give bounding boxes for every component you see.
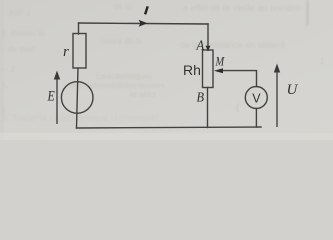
svg-text:e effet de la vieille au nombr: e effet de la vieille au nombre xyxy=(183,3,300,13)
svg-text:mietre de la: mietre de la xyxy=(100,37,142,46)
emf arrow for E xyxy=(54,71,60,125)
svg-text:E: E xyxy=(47,87,55,103)
wire right upper vertical xyxy=(207,24,209,50)
svg-text:M: M xyxy=(215,54,226,68)
voltmeter V xyxy=(245,87,267,109)
svg-text:U: U xyxy=(287,82,299,98)
svg-text:— 2: — 2 xyxy=(0,65,15,74)
svg-text:de mod: de mod xyxy=(8,45,35,54)
svg-text:r: r xyxy=(63,44,69,60)
wire top horizontal xyxy=(79,23,209,24)
svg-text:3.: 3. xyxy=(1,106,8,115)
svg-text:5.: 5. xyxy=(2,81,9,90)
wire left stub above resistor r xyxy=(78,23,80,34)
svg-text:et alors: et alors xyxy=(130,90,156,99)
wire voltmeter to bottom xyxy=(255,109,257,128)
ghost bleed-through text (faint) xyxy=(0,2,325,123)
svg-text:1: 1 xyxy=(320,57,325,66)
svg-text:de la: de la xyxy=(114,2,132,11)
wiper arrowhead M xyxy=(214,68,223,73)
svg-text:(: ( xyxy=(236,102,239,112)
svg-text:5. Tracer la caracteristique U: 5. Tracer la caracteristique U (intensit… xyxy=(2,113,159,123)
rheostat Rh xyxy=(203,50,214,88)
svg-text:AVP J: AVP J xyxy=(8,9,30,18)
svg-text:des automobilistes annees: des automobilistes annees xyxy=(70,81,165,90)
wire from resistor r to bottom through generator xyxy=(77,68,79,128)
wire right lower vertical below rheostat xyxy=(207,88,209,128)
current arrow I on top wire xyxy=(139,20,148,27)
svg-text:V: V xyxy=(252,91,261,105)
label I xyxy=(145,6,148,14)
page background xyxy=(0,0,333,140)
wire wiper M to voltmeter xyxy=(223,71,257,87)
svg-text:caracteristiques: caracteristiques xyxy=(96,72,152,81)
svg-text:A: A xyxy=(196,37,205,53)
svg-text:6. Restav la: 6. Restav la xyxy=(2,29,45,38)
svg-text:B: B xyxy=(197,89,205,105)
svg-text:Rh: Rh xyxy=(183,62,201,78)
generator E (circle) xyxy=(61,82,93,114)
wire bottom horizontal xyxy=(77,127,262,128)
page fold shadow xyxy=(306,0,309,26)
junction arrowhead at node A xyxy=(206,46,211,52)
resistor r xyxy=(73,34,86,69)
voltage arrow U xyxy=(274,64,280,128)
